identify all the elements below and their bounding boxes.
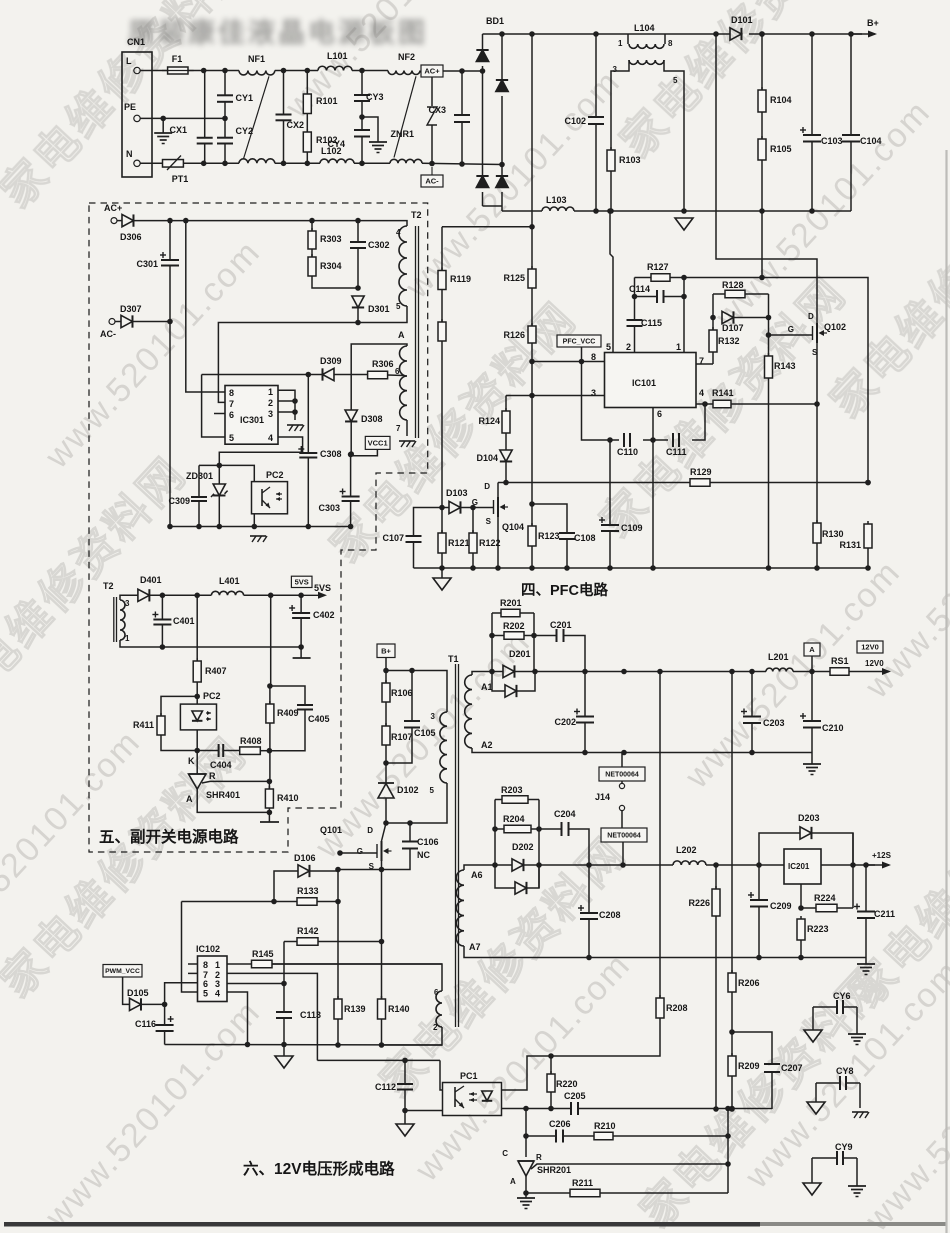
svg-text:R128: R128 (722, 280, 744, 290)
svg-text:8: 8 (668, 39, 673, 48)
svg-text:六、12V电压形成电路: 六、12V电压形成电路 (243, 1159, 395, 1178)
wire IC102 pin2 row (227, 973, 317, 1060)
svg-text:NF1: NF1 (248, 54, 265, 64)
optocoupler PC2 transistor half (252, 482, 288, 514)
svg-text:1: 1 (618, 39, 623, 48)
svg-text:C107: C107 (382, 533, 404, 543)
svg-text:C203: C203 (763, 718, 785, 728)
svg-text:R223: R223 (807, 924, 829, 934)
svg-text:A7: A7 (469, 942, 481, 952)
svg-text:R201: R201 (500, 598, 522, 608)
wire 12S return rail (464, 946, 866, 958)
diode D102 (385, 763, 387, 783)
svg-text:G: G (788, 325, 794, 334)
svg-text:CY4: CY4 (327, 139, 345, 149)
ground C210 (811, 753, 813, 765)
svg-text:8: 8 (203, 960, 208, 970)
wire IC101 pin6 column (652, 408, 654, 441)
svg-text:R410: R410 (277, 793, 299, 803)
svg-text:C114: C114 (629, 284, 650, 294)
svg-text:R206: R206 (738, 978, 760, 988)
svg-text:NF2: NF2 (398, 52, 415, 62)
bridge BD1 diode 2 (476, 176, 488, 187)
svg-text:D301: D301 (368, 304, 390, 314)
resistor R131 (865, 480, 871, 486)
wire PC1 bottom row with C205 (502, 1108, 571, 1110)
svg-text:T2: T2 (103, 581, 114, 591)
transformer T1 winding A1-A2 (465, 675, 472, 748)
svg-text:R224: R224 (814, 893, 836, 903)
svg-text:A6: A6 (471, 870, 483, 880)
resistor R208 column (659, 672, 661, 999)
wire IC102 pin6 row to D105 node (165, 983, 198, 1005)
svg-text:R408: R408 (240, 736, 262, 746)
resistor R139 (337, 996, 339, 999)
svg-text:PT1: PT1 (172, 174, 189, 184)
svg-text:5: 5 (606, 342, 611, 352)
svg-text:C308: C308 (320, 449, 342, 459)
label PFC_VCC box (557, 335, 601, 347)
svg-text:R208: R208 (666, 1003, 688, 1013)
inductor L101 (318, 66, 352, 70)
svg-text:AC+: AC+ (424, 67, 440, 76)
capacitor C303 (350, 455, 352, 497)
wire startup column from B+ rect node (529, 31, 535, 37)
svg-text:A2: A2 (481, 740, 493, 750)
svg-text:R126: R126 (503, 330, 525, 340)
svg-text:C405: C405 (308, 714, 330, 724)
diode D203 (759, 833, 800, 865)
svg-text:C105: C105 (414, 728, 436, 738)
capacitor CX3 (461, 71, 463, 115)
svg-text:R409: R409 (277, 708, 299, 718)
diode D105 (123, 977, 130, 1004)
node B+ arrow (849, 33, 875, 35)
resistor R130 (816, 520, 818, 523)
svg-text:AC+: AC+ (104, 203, 122, 213)
resistor R211 (526, 1192, 570, 1194)
capacitor C113 (283, 984, 285, 1013)
svg-text:C404: C404 (210, 760, 232, 770)
wire N row (140, 162, 162, 164)
resistor R119 (441, 227, 443, 271)
svg-text:L201: L201 (768, 652, 789, 662)
wire 12S rectified rail (539, 864, 673, 866)
svg-text:C211: C211 (874, 909, 895, 919)
wire VCC node row (202, 374, 323, 376)
svg-text:家电维修资料网: 家电维修资料网 (321, 293, 586, 572)
svg-text:C209: C209 (770, 901, 792, 911)
wire L row (140, 70, 167, 72)
svg-text:8: 8 (229, 388, 234, 398)
capacitor C210 (811, 672, 813, 722)
svg-text:PWM_VCC: PWM_VCC (105, 968, 140, 975)
wire L104 pin3 to R103 (611, 60, 629, 150)
wire D307 cathode to C301 column (132, 321, 170, 323)
capacitor C204 (539, 828, 562, 830)
svg-text:D: D (367, 826, 373, 835)
wire R208 to PC1 row (502, 1018, 660, 1090)
resistor R104 (759, 31, 765, 37)
svg-text:D306: D306 (120, 232, 142, 242)
svg-text:4: 4 (215, 989, 220, 999)
svg-text:2: 2 (268, 398, 273, 408)
zener ZD301 (218, 465, 220, 484)
wire R127 feedback row (684, 278, 868, 483)
svg-text:R407: R407 (205, 666, 227, 676)
ground PFC rail (441, 568, 443, 578)
resistor R123 (531, 504, 533, 526)
resistor R304 (311, 249, 313, 257)
svg-text:R129: R129 (690, 467, 712, 477)
capacitor C104 (848, 31, 854, 37)
svg-text:D105: D105 (127, 988, 149, 998)
wire T2 winding A top (351, 344, 407, 410)
svg-text:D308: D308 (361, 414, 383, 424)
wire PC2 LED cathode (196, 730, 198, 751)
resistor R103 (610, 147, 612, 150)
resistor R129 (690, 479, 710, 487)
wire T2 pin5 row to IC301 pin7 (218, 306, 407, 402)
varistor ZNR1 (431, 77, 433, 106)
svg-text:L103: L103 (546, 195, 567, 205)
label 12V0 box (857, 641, 883, 653)
pin N (134, 160, 140, 166)
wire Q101 gate (340, 852, 377, 854)
diode D202 a (512, 859, 523, 871)
wire AC+ row (133, 221, 407, 226)
svg-text:D106: D106 (294, 853, 316, 863)
resistor R206 column from 12V rail (731, 672, 733, 974)
wire PC1 left bottom pin (405, 1110, 443, 1112)
svg-text:L401: L401 (219, 576, 240, 586)
svg-text:1: 1 (268, 387, 273, 397)
svg-text:5: 5 (430, 786, 435, 795)
svg-text:R125: R125 (503, 273, 525, 283)
capacitor C108 (532, 504, 567, 533)
ground CY9 right (856, 1158, 858, 1186)
ground C112 (404, 1111, 406, 1125)
resistor R141 (713, 400, 731, 408)
svg-text:C402: C402 (313, 610, 335, 620)
resistor R209 (731, 1032, 733, 1056)
wire pin2 feedback row (317, 1059, 440, 1061)
svg-text:C111: C111 (666, 447, 687, 457)
svg-text:R411: R411 (133, 720, 154, 730)
resistor R411 (161, 696, 197, 716)
svg-text:L101: L101 (327, 51, 348, 61)
transistor Q102 (769, 334, 813, 336)
pin L (134, 67, 140, 73)
svg-text:5: 5 (396, 302, 401, 311)
resistor R143 (768, 294, 770, 356)
resistor R140 (381, 942, 383, 1000)
svg-text:R211: R211 (572, 1178, 593, 1188)
resistor R208 (659, 995, 661, 998)
label NET00064 box upper (599, 767, 645, 781)
svg-text:R121: R121 (448, 538, 470, 548)
svg-text:L202: L202 (676, 845, 697, 855)
svg-text:G: G (357, 847, 363, 856)
svg-text:5: 5 (203, 989, 208, 999)
label 5VS box (291, 576, 312, 587)
resistor R223 (800, 916, 802, 919)
svg-text:C112: C112 (375, 1082, 396, 1092)
wire C110 C111 row (582, 362, 620, 441)
wire K row with C404 (197, 750, 218, 752)
resistor R306 (334, 374, 368, 376)
capacitor C209 (758, 865, 760, 900)
resistor R226 (715, 886, 717, 889)
svg-text:IC102: IC102 (196, 944, 220, 954)
svg-text:R133: R133 (297, 886, 319, 896)
svg-text:C301: C301 (136, 259, 158, 269)
IC IC201 (784, 849, 821, 884)
diode D202 b (495, 865, 515, 888)
capacitor C105 (411, 671, 413, 722)
capacitor C404 (218, 744, 220, 757)
svg-text:R303: R303 (320, 234, 342, 244)
wire standby ground rail (170, 526, 351, 528)
svg-text:5VS: 5VS (295, 578, 309, 587)
svg-text:L104: L104 (634, 23, 655, 33)
svg-text:R141: R141 (712, 388, 734, 398)
capacitor C309 (198, 465, 200, 497)
ground C211 (865, 958, 867, 965)
svg-text:R143: R143 (774, 361, 796, 371)
svg-text:C309: C309 (168, 496, 190, 506)
wire VCC row to IC301 pin5 (202, 375, 225, 438)
resistor R107 (385, 702, 387, 726)
svg-text:R107: R107 (391, 732, 413, 742)
diode D103 (442, 507, 449, 509)
resistor R210 (563, 1135, 594, 1137)
diode D201 b (492, 672, 505, 692)
diode D307 (115, 321, 121, 323)
diode D401 (138, 589, 149, 601)
svg-text:CY8: CY8 (836, 1066, 854, 1076)
svg-text:IC201: IC201 (788, 862, 810, 871)
svg-text:CX3: CX3 (428, 105, 446, 115)
capacitor C401 (161, 595, 163, 619)
page bottom edge bar (4, 1222, 760, 1227)
capacitor C211 (865, 865, 867, 912)
svg-text:3: 3 (268, 409, 273, 419)
svg-text:D101: D101 (731, 15, 753, 25)
svg-text:4: 4 (396, 228, 401, 237)
svg-text:5VS: 5VS (314, 583, 331, 593)
svg-text:C207: C207 (781, 1063, 803, 1073)
capacitor C201 (534, 635, 557, 637)
wire IC102 pin8 stub (188, 963, 198, 965)
svg-text:IC301: IC301 (240, 415, 264, 425)
connector CN1 (122, 52, 152, 177)
svg-text:R127: R127 (647, 262, 669, 272)
ground CY8 left (815, 1083, 817, 1102)
svg-text:CY1: CY1 (236, 93, 254, 103)
resistor R124 (505, 396, 507, 412)
svg-text:R123: R123 (538, 531, 560, 541)
svg-text:R210: R210 (594, 1121, 616, 1131)
wire C206 R210 row (526, 1135, 556, 1137)
wire D101 anode column down to Q102 drain (716, 34, 817, 323)
svg-text:R220: R220 (556, 1079, 578, 1089)
wire Q104 drain row (498, 482, 690, 484)
svg-text:PC1: PC1 (460, 1071, 478, 1081)
node AC- label (421, 175, 443, 187)
svg-text:C106: C106 (417, 837, 439, 847)
capacitor CY4 (361, 117, 363, 130)
ground CY8 right (859, 1083, 861, 1108)
wire R203 R204 left column (494, 800, 496, 866)
wire IC201 out row (821, 864, 875, 866)
svg-text:C303: C303 (318, 503, 340, 513)
node +12S arrow (866, 864, 889, 866)
wire Q101 drain (382, 823, 387, 841)
svg-text:D203: D203 (798, 813, 820, 823)
svg-text:原装康佳液晶电源板图: 原装康佳液晶电源板图 (128, 17, 428, 48)
svg-text:R103: R103 (619, 155, 641, 165)
svg-text:AC-: AC- (425, 177, 439, 186)
svg-text:5: 5 (229, 433, 234, 443)
wire R133 column down to IC102 pin5 (182, 902, 198, 993)
resistor R201 (492, 612, 501, 614)
ground CY9 left (811, 1158, 813, 1183)
svg-text:D104: D104 (476, 453, 498, 463)
svg-text:G: G (472, 498, 478, 507)
svg-text:D309: D309 (320, 356, 342, 366)
capacitor C103 (811, 34, 813, 135)
svg-text:+12S: +12S (872, 851, 892, 860)
svg-text:R306: R306 (372, 359, 394, 369)
capacitor C208 (588, 865, 590, 913)
node AC+ label (421, 65, 443, 77)
wire IC101 pin8 row (532, 361, 605, 363)
wire NET00064 to 12S rail (622, 842, 624, 865)
transformer L104 winding 3-5 (629, 59, 664, 61)
resistor R101 (306, 71, 308, 95)
capacitor C206 (555, 1130, 557, 1143)
capacitor C110 (623, 433, 625, 447)
wire IC102 pin7 stub (188, 972, 198, 974)
junction dots L row (201, 68, 207, 74)
resistor R132 (712, 318, 714, 331)
svg-text:B+: B+ (867, 18, 879, 28)
resistor R125 (531, 227, 533, 269)
resistor R106 (385, 671, 387, 684)
svg-text:CY3: CY3 (366, 92, 384, 102)
svg-text:NET00064: NET00064 (605, 772, 639, 779)
svg-text:F1: F1 (172, 54, 183, 64)
svg-text:R104: R104 (770, 95, 792, 105)
svg-text:C104: C104 (860, 136, 882, 146)
ground primary rail (283, 1045, 285, 1057)
svg-text:NET00064: NET00064 (607, 833, 641, 840)
inductor L202 (673, 861, 706, 865)
svg-text:R105: R105 (770, 144, 792, 154)
svg-text:K: K (188, 756, 195, 766)
wire PC1 left top pin (440, 1060, 443, 1090)
common-mode choke NF1 (239, 71, 275, 75)
wire T2 winding3 to D401 (120, 595, 138, 600)
transformer T1 winding 6-2 (436, 991, 442, 1027)
wire 5VS return row (120, 640, 301, 647)
wire SHR201 anode (525, 1176, 527, 1198)
capacitor C114 (634, 278, 636, 297)
wire PC2 bottom to ground rail (253, 514, 255, 527)
capacitor C115 (634, 297, 636, 321)
wire sense column (727, 1109, 729, 1194)
svg-text:ZNR1: ZNR1 (390, 129, 414, 139)
wire L104 pin5 down (664, 60, 684, 211)
svg-text:A: A (398, 330, 405, 340)
wire SHR401 anode row (197, 789, 269, 812)
svg-text:3: 3 (591, 388, 596, 398)
capacitor CY2 (224, 118, 226, 137)
ground L104 pin5 rail (675, 218, 693, 230)
wire R127 right column to pin1 (681, 275, 687, 281)
svg-text:C206: C206 (549, 1119, 571, 1129)
inductor L102 (320, 159, 354, 163)
node 5VS arrow (303, 594, 325, 596)
junction dots N row (201, 161, 207, 167)
svg-text:C103: C103 (821, 136, 843, 146)
resistor R145 (227, 963, 252, 965)
ground CY3-CY4 midpoint (359, 114, 365, 120)
wire R304 to D301 (312, 276, 358, 288)
svg-text:A: A (510, 1177, 516, 1186)
svg-text:L: L (126, 56, 132, 66)
wire R126 column down (531, 362, 533, 505)
wire R410 node (269, 751, 271, 782)
svg-text:R: R (536, 1153, 542, 1162)
svg-text:D201: D201 (509, 649, 531, 659)
resistor R408 (223, 750, 240, 752)
svg-text:R106: R106 (391, 688, 413, 698)
svg-text:3: 3 (215, 979, 220, 989)
wire B+ column (385, 658, 387, 671)
svg-text:1: 1 (676, 342, 681, 352)
resistor R202 (492, 635, 504, 637)
capacitor C402 (300, 595, 302, 613)
wire T1 pin5 to Q101 drain (386, 783, 447, 823)
wire A1 to D201 (472, 672, 503, 676)
svg-text:T2: T2 (411, 210, 422, 220)
svg-text:R226: R226 (688, 898, 710, 908)
svg-text:3: 3 (431, 712, 436, 721)
svg-text:C102: C102 (564, 116, 586, 126)
wire Q101 source row to D106 node (338, 869, 382, 871)
svg-text:5: 5 (673, 76, 678, 85)
wire IC102 pin4 to ground (227, 992, 248, 1045)
svg-text:RS1: RS1 (831, 656, 849, 666)
transformer T1 primary 3-5 (440, 712, 447, 783)
svg-text:6: 6 (657, 409, 662, 419)
svg-text:C302: C302 (368, 240, 390, 250)
wire AC+ to bridge (443, 70, 483, 72)
pin PE (134, 115, 140, 121)
svg-text:7: 7 (396, 424, 401, 433)
node 12V0 arrow (849, 671, 857, 673)
svg-text:S: S (486, 517, 492, 526)
svg-text:R142: R142 (297, 926, 319, 936)
svg-text:C401: C401 (173, 616, 195, 626)
wire VCC1 to C303 node (351, 449, 378, 455)
label VCC1 box (365, 436, 390, 449)
resistor R102 (306, 114, 308, 133)
svg-text:VCC1: VCC1 (368, 439, 388, 448)
wire A6 to D202 (464, 865, 512, 870)
